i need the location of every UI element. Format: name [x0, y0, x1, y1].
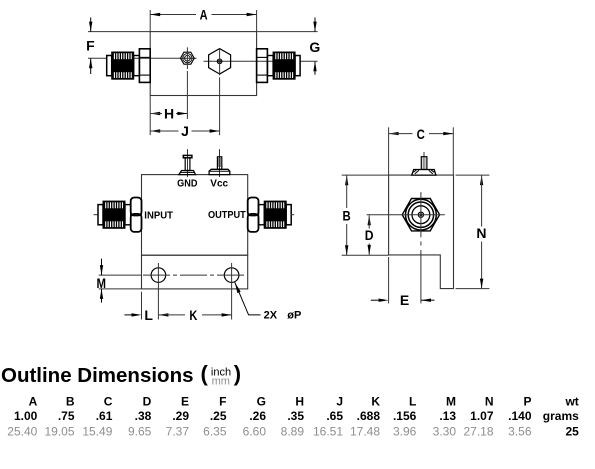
svg-text:Vcc: Vcc — [210, 179, 228, 190]
svg-text:J: J — [336, 395, 343, 409]
svg-text:3.30: 3.30 — [433, 424, 457, 438]
svg-text:2X: 2X — [264, 310, 278, 322]
svg-text:.35: .35 — [287, 409, 304, 423]
svg-text:Outline Dimensions: Outline Dimensions — [1, 364, 194, 387]
svg-text:B: B — [66, 395, 75, 409]
svg-text:N: N — [485, 395, 494, 409]
svg-text:.75: .75 — [58, 409, 75, 423]
svg-text:25.40: 25.40 — [7, 424, 37, 438]
svg-text:F: F — [86, 38, 95, 54]
svg-text:mm: mm — [212, 376, 230, 388]
svg-text:N: N — [476, 225, 486, 241]
svg-text:6.60: 6.60 — [243, 424, 267, 438]
svg-text:17.48: 17.48 — [350, 424, 380, 438]
svg-text:.13: .13 — [439, 409, 456, 423]
svg-text:J: J — [181, 123, 189, 139]
svg-text:C: C — [104, 395, 113, 409]
svg-text:D: D — [143, 395, 152, 409]
svg-text:19.05: 19.05 — [44, 424, 74, 438]
svg-text:25: 25 — [565, 424, 579, 438]
svg-text:16.51: 16.51 — [313, 424, 343, 438]
svg-text:K: K — [371, 395, 380, 409]
svg-text:wt: wt — [564, 395, 578, 409]
svg-text:A: A — [200, 7, 208, 23]
svg-text:F: F — [219, 395, 226, 409]
svg-text:3.56: 3.56 — [508, 424, 532, 438]
svg-text:E: E — [181, 395, 189, 409]
svg-text:.65: .65 — [326, 409, 343, 423]
svg-text:OUTPUT: OUTPUT — [208, 210, 246, 221]
svg-text:L: L — [144, 307, 153, 323]
svg-text:.26: .26 — [249, 409, 266, 423]
svg-text:P: P — [523, 395, 531, 409]
svg-text:7.37: 7.37 — [166, 424, 190, 438]
svg-text:9.65: 9.65 — [128, 424, 152, 438]
svg-text:A: A — [29, 395, 38, 409]
svg-text:3.96: 3.96 — [393, 424, 417, 438]
svg-text:C: C — [417, 126, 425, 142]
svg-text:1.07: 1.07 — [470, 409, 494, 423]
svg-text:.61: .61 — [96, 409, 113, 423]
svg-text:grams: grams — [543, 409, 579, 423]
svg-text:27.18: 27.18 — [463, 424, 493, 438]
svg-text:(: ( — [201, 361, 209, 386]
svg-text:G: G — [257, 395, 266, 409]
svg-text:INPUT: INPUT — [144, 210, 173, 221]
svg-text:øP: øP — [287, 310, 301, 322]
svg-text:.29: .29 — [172, 409, 189, 423]
svg-text:.25: .25 — [210, 409, 227, 423]
svg-text:D: D — [365, 227, 374, 243]
svg-text:): ) — [234, 361, 241, 386]
svg-text:15.49: 15.49 — [82, 424, 112, 438]
svg-text:6.35: 6.35 — [203, 424, 227, 438]
svg-text:H: H — [164, 106, 174, 122]
svg-text:G: G — [309, 39, 320, 55]
svg-text:GND: GND — [177, 179, 197, 190]
svg-text:M: M — [96, 275, 106, 291]
svg-text:B: B — [343, 208, 351, 224]
svg-text:H: H — [295, 395, 304, 409]
svg-text:M: M — [446, 395, 456, 409]
svg-text:L: L — [409, 395, 416, 409]
svg-text:.140: .140 — [508, 409, 532, 423]
svg-text:8.89: 8.89 — [281, 424, 305, 438]
svg-text:E: E — [400, 292, 409, 308]
svg-text:K: K — [189, 307, 197, 323]
svg-text:.688: .688 — [357, 409, 381, 423]
svg-text:.156: .156 — [393, 409, 417, 423]
svg-text:.38: .38 — [135, 409, 152, 423]
svg-text:1.00: 1.00 — [14, 409, 38, 423]
